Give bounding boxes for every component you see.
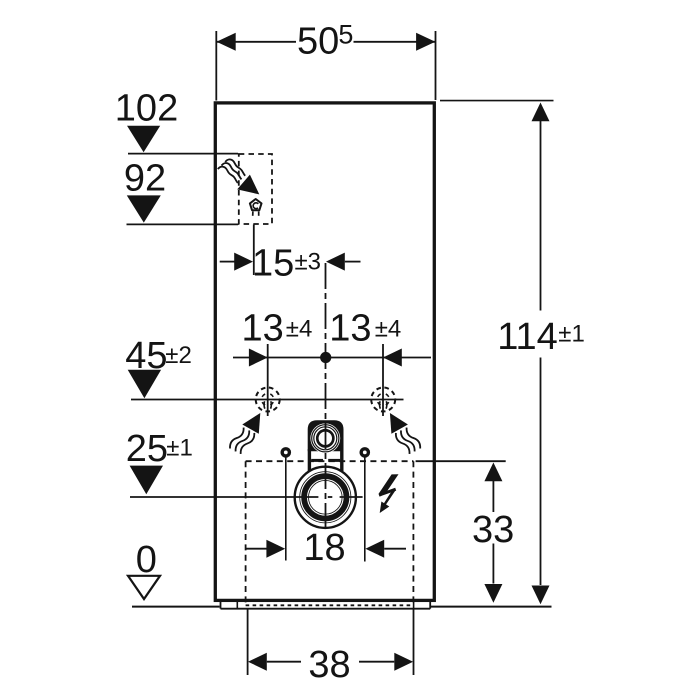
base plate bbox=[221, 600, 431, 608]
svg-text:±2: ±2 bbox=[165, 342, 192, 369]
dim 50.5 extension line right bbox=[435, 31, 437, 100]
svg-text:18: 18 bbox=[303, 527, 345, 569]
svg-text:13: 13 bbox=[329, 308, 371, 350]
dashed circle left bbox=[256, 388, 280, 412]
spray arrow lower right bbox=[390, 413, 422, 455]
level triangle 25 bbox=[130, 466, 163, 495]
level triangle 92 bbox=[127, 195, 161, 222]
dim 33 line upper bbox=[492, 481, 494, 512]
level triangle 0 open bbox=[128, 576, 160, 599]
water spray waves (box) bbox=[218, 159, 245, 183]
dashed circle right bbox=[371, 388, 395, 412]
dim 114 arrow down bbox=[532, 586, 550, 605]
supply ring white bbox=[310, 423, 340, 453]
dashed box shower function bbox=[239, 154, 272, 224]
center node dot bbox=[320, 352, 331, 363]
dim 15±3 arrow left bbox=[234, 253, 253, 271]
dim 33 extension top bbox=[416, 460, 506, 462]
extension line screw left bbox=[285, 457, 287, 561]
dim 114 arrow up bbox=[532, 103, 550, 122]
svg-text:5: 5 bbox=[338, 20, 353, 50]
dim 50.5 extension line left bbox=[215, 31, 217, 101]
svg-text:±4: ±4 bbox=[375, 315, 402, 342]
tab crossbar bbox=[311, 459, 323, 462]
dim 18 arrow left bbox=[266, 540, 285, 558]
svg-text:15: 15 bbox=[252, 242, 294, 284]
level line 25 / drain crosshair bbox=[130, 496, 292, 498]
extension line right hole bbox=[382, 344, 384, 416]
dim 38 tail left bbox=[267, 661, 301, 663]
dim 18 tail right bbox=[384, 548, 406, 550]
svg-text:50: 50 bbox=[297, 21, 339, 63]
center line of module bbox=[325, 263, 327, 531]
base plate dashed line bbox=[246, 604, 414, 606]
svg-text:38: 38 bbox=[308, 644, 350, 686]
level line 92 bbox=[127, 223, 239, 225]
svg-text:114: 114 bbox=[497, 316, 558, 358]
dim 50.5 line right segment bbox=[354, 41, 436, 43]
svg-text:102: 102 bbox=[115, 87, 178, 129]
drain outer circle bbox=[295, 467, 356, 528]
dim 33 arrow down bbox=[484, 584, 502, 603]
screw hole left bbox=[281, 447, 292, 458]
dim 38 extension left bbox=[247, 610, 249, 676]
spray arrow lower left bbox=[228, 413, 260, 455]
dim 38 arrow right bbox=[394, 653, 413, 671]
extension line screw right bbox=[364, 457, 366, 562]
dim 18 tail left bbox=[246, 548, 267, 550]
lightning bolt bbox=[379, 474, 399, 513]
dim 13 arrow left bbox=[249, 349, 268, 367]
dashed service area rect bbox=[246, 461, 414, 603]
dim 15±3 tail left bbox=[220, 261, 235, 263]
dim 114 extension top bbox=[440, 100, 554, 102]
dim 50.5 line left segment bbox=[217, 41, 297, 43]
dim 33 arrow up bbox=[484, 463, 502, 482]
level line 45 bbox=[131, 399, 404, 401]
dim 15±3 tail right bbox=[345, 261, 361, 263]
svg-text:±1: ±1 bbox=[558, 320, 585, 347]
dim 38 tail right bbox=[359, 661, 394, 663]
level triangle 45 bbox=[128, 370, 161, 398]
module outline bbox=[215, 103, 434, 601]
svg-text:13: 13 bbox=[242, 308, 284, 350]
dim 13 arrow right bbox=[383, 349, 402, 367]
supply ring circles bbox=[312, 425, 339, 452]
svg-text:±1: ±1 bbox=[166, 435, 193, 462]
extension line from tap bbox=[253, 225, 255, 276]
dim 18 arrow right bbox=[365, 540, 384, 558]
extension line left hole bbox=[267, 344, 269, 416]
dim 38 extension right bbox=[413, 610, 415, 676]
supply fitting tab black head bbox=[308, 420, 344, 451]
svg-text:25: 25 bbox=[126, 428, 168, 470]
screw hole right bbox=[360, 447, 371, 458]
dim 114 line lower bbox=[540, 358, 542, 586]
floor line bbox=[132, 606, 220, 608]
drain ring white details bbox=[301, 473, 350, 522]
level triangle 102 bbox=[127, 126, 160, 153]
tab wall right bbox=[340, 449, 343, 471]
dim 114 line upper bbox=[540, 121, 542, 311]
svg-text:92: 92 bbox=[124, 158, 166, 200]
dim 50.5 arrow right bbox=[416, 33, 435, 51]
dim 13 line bbox=[233, 357, 431, 359]
tab wall left bbox=[308, 449, 311, 471]
dim 50.5 arrow left bbox=[217, 33, 236, 51]
level line 102 bbox=[128, 153, 238, 155]
dim 15±3 arrow right bbox=[326, 253, 345, 271]
svg-text:±4: ±4 bbox=[286, 315, 313, 342]
dim 38 arrow left bbox=[248, 653, 267, 671]
water spray arrow (box) bbox=[237, 175, 259, 195]
drain crosshair horizontal bbox=[292, 496, 318, 498]
drain thick ring bbox=[304, 476, 346, 518]
tap valve icon bbox=[250, 199, 262, 216]
svg-text:±3: ±3 bbox=[295, 249, 322, 276]
dim 33 line lower bbox=[492, 544, 494, 584]
